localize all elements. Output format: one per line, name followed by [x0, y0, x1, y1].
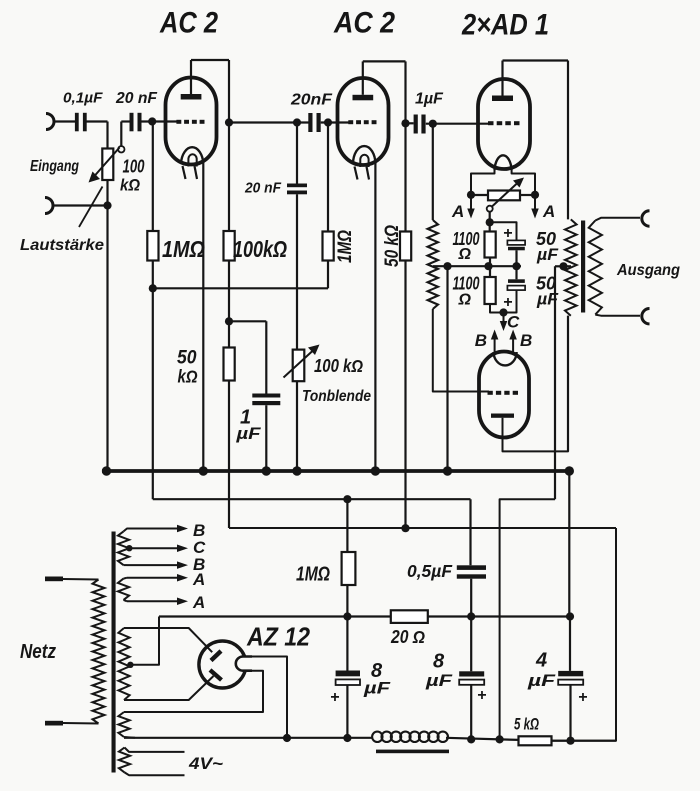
- svg-text:Lautstärke: Lautstärke: [20, 237, 104, 254]
- svg-text:Netz: Netz: [20, 641, 56, 663]
- svg-text:+: +: [503, 294, 512, 311]
- svg-text:AC 2: AC 2: [159, 7, 218, 40]
- svg-text:+: +: [330, 689, 339, 706]
- svg-text:+: +: [477, 687, 486, 704]
- svg-text:1100: 1100: [453, 274, 480, 294]
- svg-text:2×AD 1: 2×AD 1: [461, 9, 549, 42]
- svg-text:A: A: [542, 202, 555, 221]
- svg-text:AC 2: AC 2: [333, 7, 395, 40]
- svg-text:1MΩ: 1MΩ: [162, 236, 205, 262]
- svg-text:µF: µF: [235, 424, 261, 443]
- svg-text:4V~: 4V~: [188, 754, 223, 773]
- svg-text:Eingang: Eingang: [30, 158, 79, 175]
- svg-text:20 nF: 20 nF: [115, 90, 158, 107]
- svg-text:0,5µF: 0,5µF: [407, 561, 453, 581]
- svg-text:100kΩ: 100kΩ: [233, 236, 287, 262]
- svg-text:kΩ: kΩ: [178, 367, 198, 387]
- svg-text:B: B: [520, 331, 532, 350]
- svg-text:B: B: [475, 331, 487, 350]
- svg-text:A: A: [192, 593, 205, 612]
- svg-text:1MΩ: 1MΩ: [335, 230, 356, 263]
- svg-text:µF: µF: [425, 671, 453, 690]
- svg-text:100 kΩ: 100 kΩ: [314, 356, 363, 376]
- svg-text:C: C: [507, 313, 520, 332]
- svg-text:Ω: Ω: [458, 292, 472, 309]
- svg-text:50: 50: [177, 348, 197, 369]
- svg-text:20 nF: 20 nF: [244, 180, 282, 197]
- svg-text:AZ 12: AZ 12: [246, 622, 310, 652]
- svg-text:µF: µF: [527, 671, 556, 690]
- svg-text:4: 4: [535, 650, 547, 672]
- svg-text:20nF: 20nF: [290, 92, 333, 109]
- svg-text:Tonblende: Tonblende: [302, 388, 371, 405]
- svg-text:1MΩ: 1MΩ: [296, 564, 330, 586]
- svg-text:µF: µF: [363, 679, 391, 698]
- svg-text:µF: µF: [536, 245, 559, 264]
- svg-text:5 kΩ: 5 kΩ: [514, 715, 539, 734]
- svg-text:Ω: Ω: [458, 246, 472, 263]
- svg-text:1µF: 1µF: [415, 91, 444, 108]
- svg-text:Ausgang: Ausgang: [616, 262, 680, 279]
- svg-text:100: 100: [123, 157, 145, 177]
- svg-text:8: 8: [433, 651, 445, 673]
- svg-text:+: +: [503, 225, 512, 242]
- svg-text:kΩ: kΩ: [120, 176, 140, 195]
- svg-text:A: A: [192, 570, 205, 589]
- svg-text:0,1µF: 0,1µF: [63, 91, 104, 107]
- svg-text:A: A: [451, 202, 464, 221]
- svg-text:+: +: [578, 689, 587, 706]
- svg-text:20 Ω: 20 Ω: [390, 627, 425, 647]
- svg-text:50 kΩ: 50 kΩ: [382, 225, 403, 267]
